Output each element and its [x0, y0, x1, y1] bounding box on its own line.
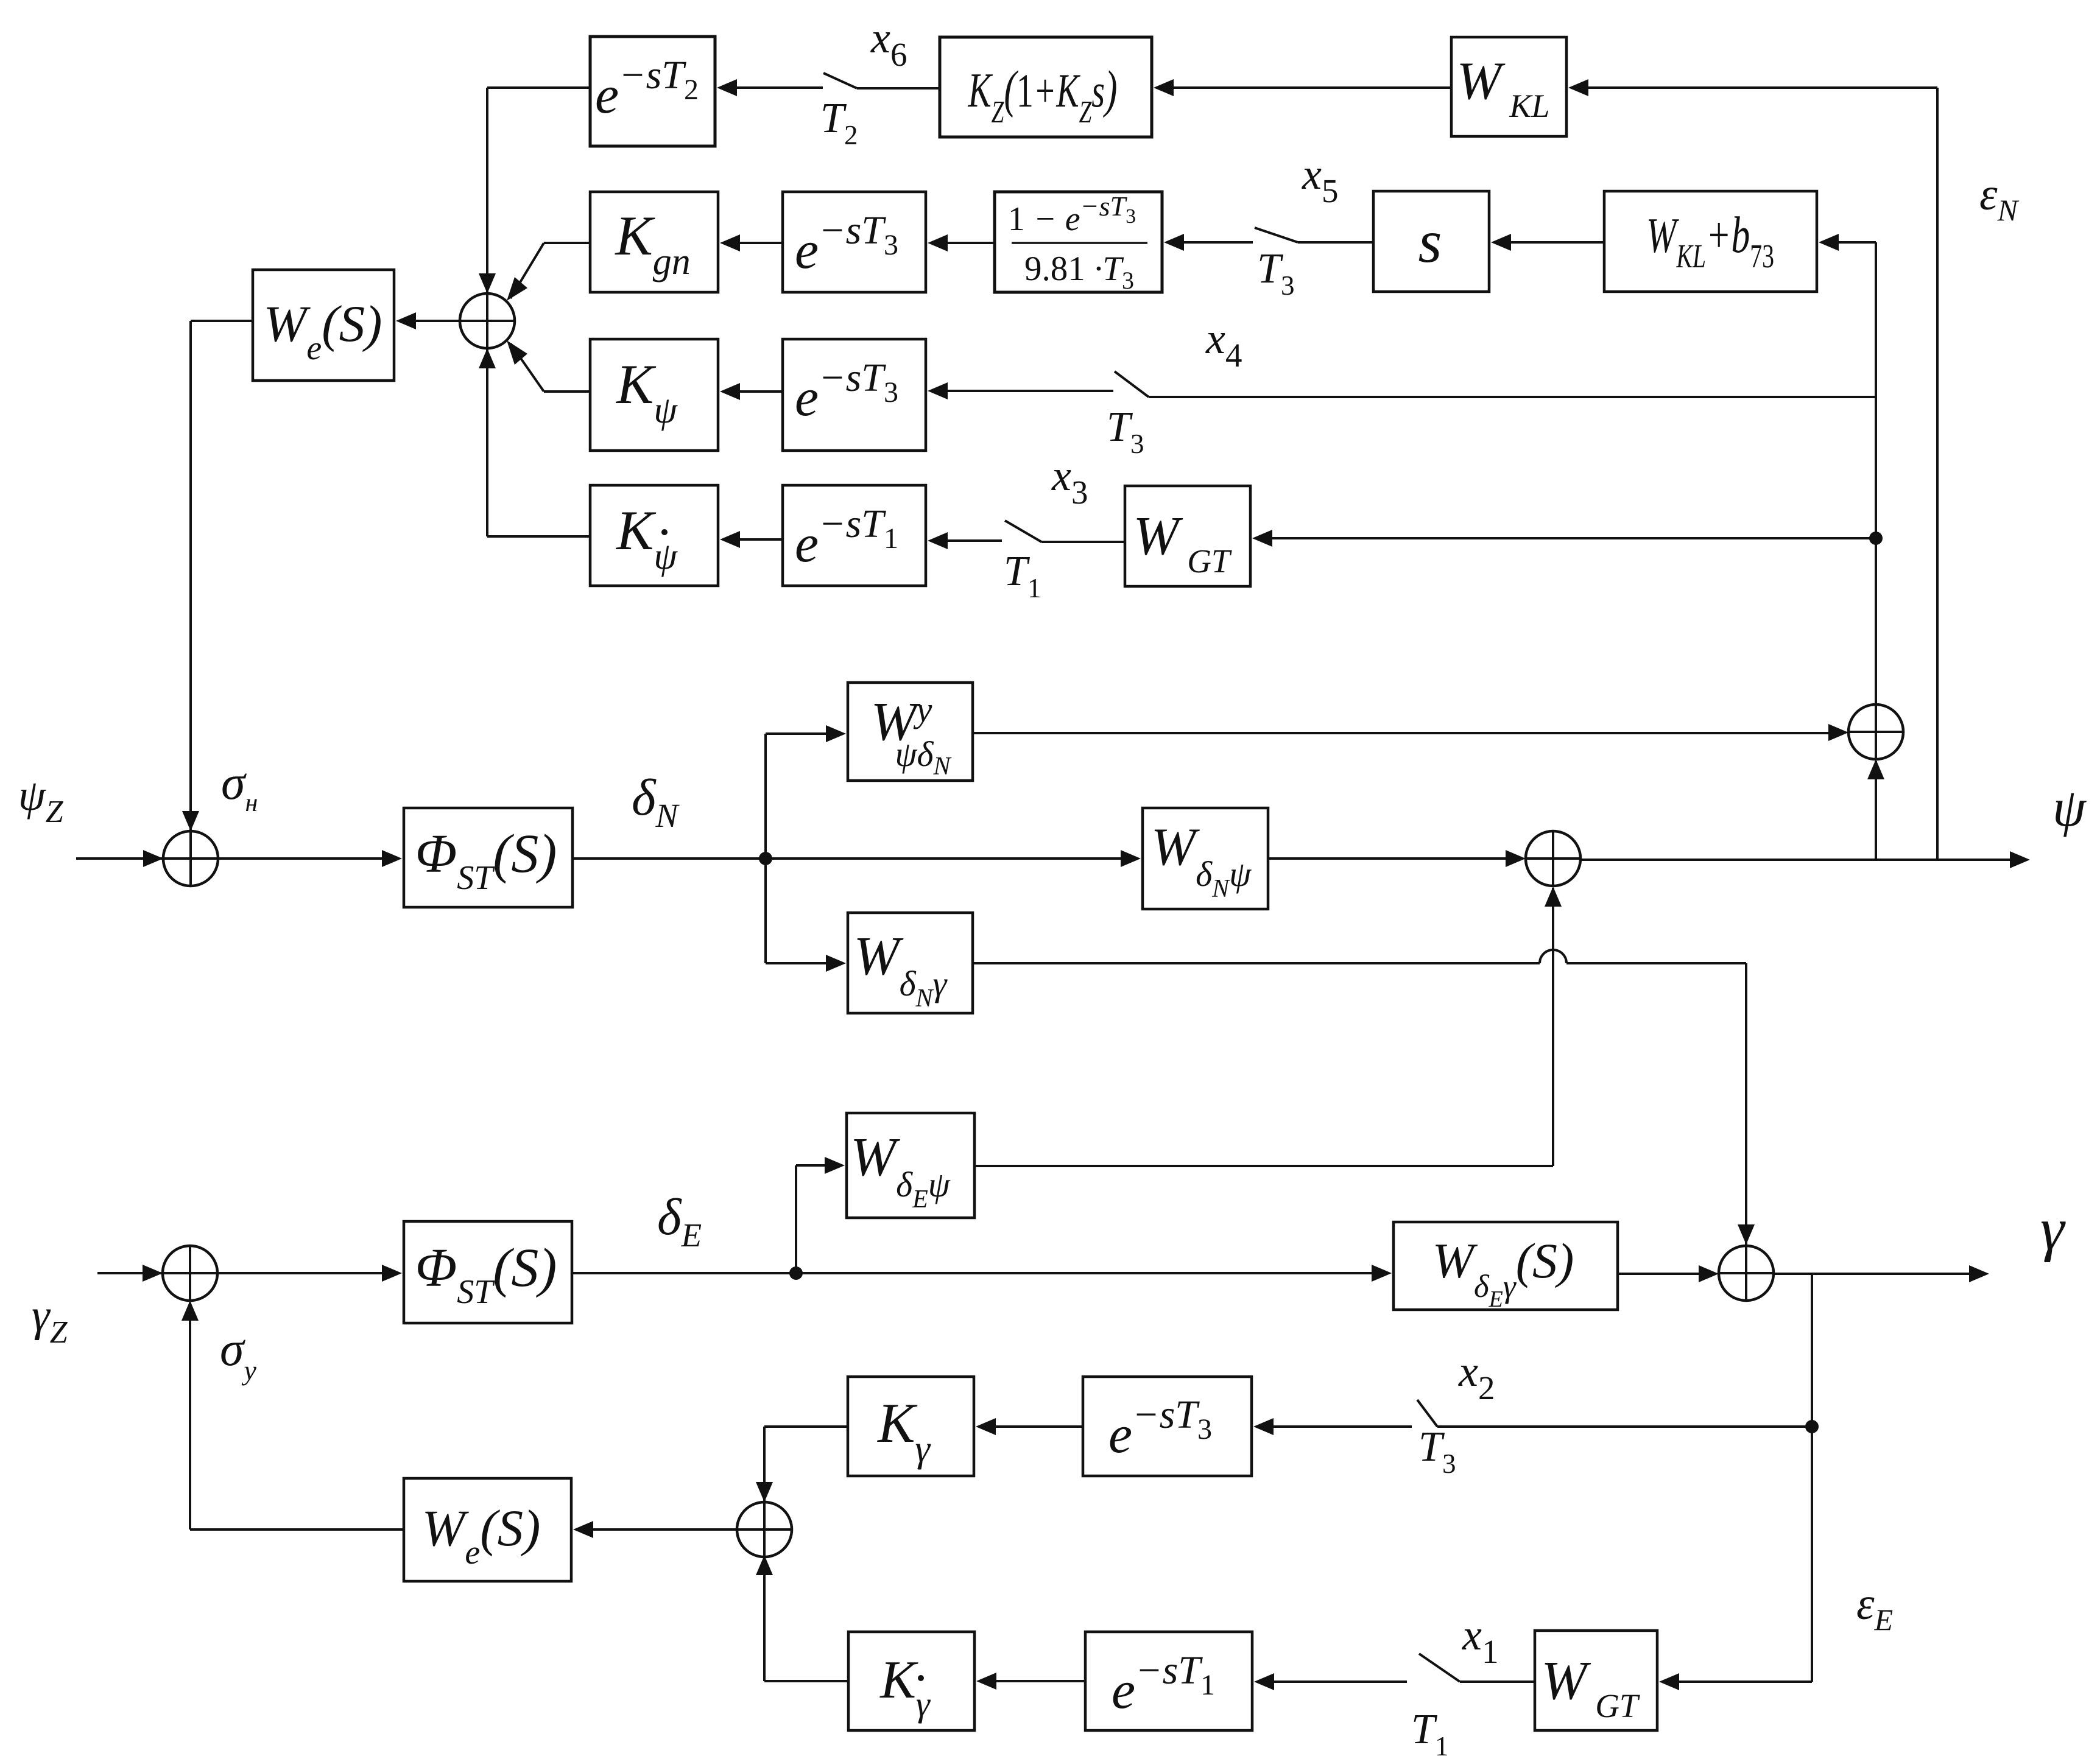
block WdeltaN-gamma	[848, 913, 973, 1013]
block We(S) lower	[404, 1478, 571, 1581]
label T1 at x3	[1004, 548, 1041, 603]
wire e^-sT1 bottom output to Kgammadot input	[976, 1673, 1085, 1690]
wire s output to switch T3	[1298, 241, 1373, 244]
wire x2 line from tap to switch	[1437, 1425, 1812, 1428]
switch x6 blade (T2)	[823, 73, 857, 88]
summing junction sigma (rows 1-4 feedback adder)	[460, 293, 515, 348]
block e^-sT3 row3	[783, 339, 926, 451]
svg-text:ψ: ψ	[2052, 779, 2087, 838]
wire WdeltaN-gamma output to gamma junction (with hop)	[973, 950, 1755, 1247]
svg-text:9.81 ·T3: 9.81 ·T3	[1024, 250, 1134, 294]
wire WdeltaE-psi up to psi junction bottom	[974, 887, 1562, 1166]
label x6	[870, 13, 907, 73]
wire deltaE branch up to WdeltaE-psi	[796, 1157, 845, 1273]
wire Wy output to epsilon_N junction	[973, 724, 1848, 741]
wire switch T2 to e^-sT2 input	[717, 79, 823, 96]
wire gamma junction output to gamma arrow	[1774, 1265, 1989, 1282]
label sigma_n	[221, 756, 258, 817]
label delta_E	[657, 1189, 702, 1254]
label epsilon_N	[1979, 169, 2020, 227]
wire epsilon_N line to WKL+b73 input	[1819, 234, 1876, 251]
block Kgn gain	[590, 192, 718, 292]
wire e^-sT3 bottom output to Kgamma input	[976, 1418, 1083, 1435]
wire e^-sT1 output to Kpsidot input	[720, 531, 783, 548]
wire deltaE line PhiST to WdeltaE-gamma	[572, 1265, 1392, 1282]
block s (differentiator)	[1373, 191, 1489, 292]
wire epsilon_N junction output up	[1875, 242, 1877, 704]
wire sigma junction output to We upper input	[396, 312, 460, 329]
label gamma output	[2040, 1195, 2066, 1263]
summing junction epsilon_N adder	[1848, 704, 1903, 759]
wire WKL output to KZ input	[1154, 79, 1451, 96]
block WKL+b73	[1604, 191, 1817, 292]
label x3	[1051, 451, 1088, 511]
summing junction psi output adder	[1526, 831, 1580, 886]
label gamma_Z	[32, 1290, 68, 1350]
label sigma_y	[220, 1322, 256, 1386]
wire WKL+b73 output to s input	[1491, 234, 1604, 251]
block WdeltaE-gamma(S)	[1394, 1222, 1618, 1312]
wire switch x1 to e^-sT1 bottom input	[1254, 1673, 1407, 1690]
svg-text:γ: γ	[2040, 1195, 2066, 1263]
block Kpsi gain	[590, 339, 718, 451]
block Kgamma gain	[848, 1377, 974, 1476]
block zero-order-hold (1-e^-sT3)/(9.81*T3)	[995, 191, 1162, 294]
label T3 at x2	[1418, 1424, 1456, 1479]
summing junction psi_Z input	[163, 831, 218, 886]
block e^-sT1 row4	[783, 485, 926, 586]
wire WdeltaN-psi output to psi junction	[1268, 850, 1526, 867]
wire psi_Z junction to PhiST upper	[218, 850, 402, 867]
block We(S) upper	[253, 270, 394, 381]
block e^-sT1 bottom	[1085, 1632, 1252, 1730]
wire switch T3 to hold block input	[1164, 234, 1253, 251]
label x2	[1458, 1347, 1495, 1407]
block Kpsidot gain	[590, 485, 718, 586]
wire WGT lower output to switch T1	[1460, 1680, 1535, 1683]
wire Kgammadot output up to adder	[756, 1555, 848, 1681]
label x5	[1302, 150, 1338, 209]
wire hold block output to e^-sT3 row2 input	[928, 234, 995, 251]
wire psi tap up to epsilon_N junction bottom	[1867, 759, 1884, 860]
wire gamma_Z input arrow	[97, 1265, 164, 1282]
label x1	[1462, 1610, 1498, 1670]
summing junction gamma output adder	[1719, 1246, 1774, 1301]
switch x1 blade (T1)	[1419, 1654, 1460, 1682]
junction dot deltaE	[789, 1266, 803, 1280]
label delta_N	[632, 769, 680, 834]
wire epsilon_N line to WGT upper input	[1252, 530, 1876, 547]
wire epsilon_E line to WGT lower input	[1659, 1673, 1812, 1690]
label epsilon_E	[1856, 1579, 1893, 1637]
label x4	[1205, 314, 1242, 374]
wire deltaN line PhiST to WdeltaN-psi	[573, 850, 1141, 867]
block e^-sT3 row2	[783, 192, 926, 292]
block PhiST(S) lower (steering)	[404, 1221, 572, 1323]
block e^-sT2 (transport delay T2)	[590, 37, 715, 146]
wire gamma tap down (epsilon_E line)	[1811, 1274, 1813, 1682]
wire adder output to We lower input	[573, 1521, 737, 1538]
switch x5 blade (T3)	[1255, 228, 1298, 242]
wire KZ output to switch T2	[857, 87, 940, 90]
wire e^-sT3 row3 output to Kpsi input	[720, 383, 783, 400]
label T3 at x5	[1257, 245, 1294, 301]
wire psi_Z input arrow	[76, 850, 165, 867]
wire switch x3 to e^-sT1 input	[928, 532, 1002, 549]
wire Kgamma output down to adder	[756, 1427, 848, 1504]
block WKL (course system)	[1451, 37, 1566, 136]
wire We upper output down to psi_Z junction	[182, 321, 253, 833]
block e^-sT3 bottom	[1083, 1377, 1252, 1476]
label T2	[820, 95, 858, 150]
wire Kgn output to sigma junction (diagonal)	[507, 243, 590, 301]
block PhiST(S) upper (steering)	[404, 808, 573, 907]
wire WGT upper output to switch T1	[1041, 541, 1125, 543]
wire switch x4 to e^-sT3 row3 input	[928, 382, 1113, 399]
switch x2 blade (T3)	[1417, 1400, 1437, 1427]
label T1 at x1	[1411, 1706, 1448, 1756]
block WGT lower (gyro)	[1535, 1631, 1657, 1730]
svg-text:s: s	[1418, 208, 1442, 275]
wire switch x2 to e^-sT3 bottom input	[1253, 1418, 1412, 1435]
block WdeltaN-psi	[1143, 808, 1268, 909]
wire psi junction output to psi arrow	[1580, 851, 2030, 868]
junction dot epsilon_N to WGT	[1869, 532, 1883, 545]
wire e^-sT3 row2 output to Kgn input	[720, 234, 783, 251]
switch x3 blade (T1)	[1005, 521, 1041, 542]
wire gamma_Z junction to PhiST lower	[217, 1265, 402, 1282]
wire WdeltaE-gamma output to gamma junction	[1618, 1265, 1719, 1282]
wire deltaN branch down to WdeltaN-gamma	[766, 859, 846, 972]
junction dot gamma tap to x2 line	[1805, 1420, 1819, 1433]
wire psi feedback up to WKL input (epsilon_N)	[1568, 79, 1937, 860]
switch x4 blade (T3)	[1115, 371, 1149, 397]
block Kgammadot gain	[848, 1632, 974, 1730]
wire Kpsidot output to sigma junction	[479, 347, 590, 536]
block WdeltaE-psi	[847, 1113, 974, 1218]
summing junction gamma-rate feedback adder	[737, 1502, 792, 1557]
label T3 at x4	[1107, 404, 1144, 459]
wire deltaN branch up to Wy block	[766, 725, 846, 859]
summing junction gamma_Z input	[163, 1246, 217, 1301]
junction dot deltaN	[759, 852, 772, 865]
block WGT upper (gyro)	[1125, 486, 1250, 586]
block Wy_psi-deltaN	[848, 683, 973, 781]
wire Kpsi output to sigma junction (diagonal)	[507, 340, 590, 392]
wire e^-sT2 output to sigma junction	[479, 88, 590, 295]
block KZ(1+KZs)	[940, 37, 1152, 137]
wire x4 line from epsilon_N vertical to switch	[1149, 396, 1876, 398]
label psi_Z	[18, 771, 64, 829]
label psi output	[2052, 779, 2087, 838]
wire We lower output up to gamma_Z junction (sigma_y)	[181, 1301, 404, 1529]
